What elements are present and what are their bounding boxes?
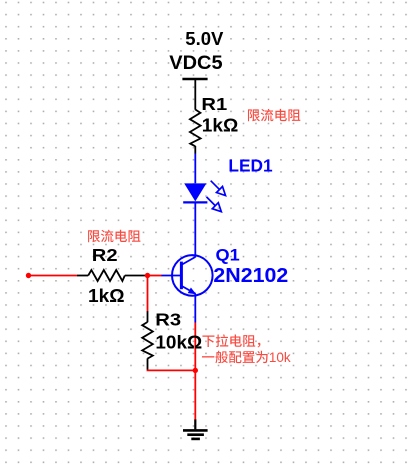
svg-text:R1: R1 [201, 94, 227, 114]
svg-text:LED1: LED1 [228, 155, 272, 175]
svg-text:1kΩ: 1kΩ [202, 115, 239, 136]
svg-text:10kΩ: 10kΩ [155, 331, 202, 352]
svg-text:Q1: Q1 [216, 245, 240, 264]
svg-text:5.0V: 5.0V [185, 28, 224, 49]
svg-text:R3: R3 [155, 309, 181, 329]
svg-text:VDC5: VDC5 [169, 53, 223, 74]
svg-text:1kΩ: 1kΩ [88, 285, 125, 306]
svg-text:R2: R2 [92, 245, 118, 265]
svg-text:2N2102: 2N2102 [213, 264, 288, 287]
svg-text:10k: 10k [269, 350, 291, 365]
